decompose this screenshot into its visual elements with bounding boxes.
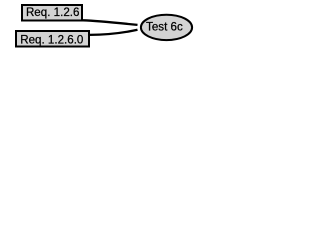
node Req. 1.2.6.0 (box) bbox=[16, 31, 89, 47]
svg-text:Req. 1.2.6.0: Req. 1.2.6.0 bbox=[20, 33, 83, 46]
node Req. 1.2.6 (box) bbox=[22, 5, 82, 21]
wire: Req. 1.2.6 to Test 6c bbox=[83, 20, 138, 25]
background bbox=[0, 0, 207, 55]
wire: Req. 1.2.6.0 to Test 6c bbox=[90, 30, 138, 35]
svg-text:Test 6c: Test 6c bbox=[146, 21, 183, 34]
node Test 6c (ellipse) bbox=[141, 15, 192, 40]
svg-text:Req. 1.2.6: Req. 1.2.6 bbox=[26, 6, 80, 19]
